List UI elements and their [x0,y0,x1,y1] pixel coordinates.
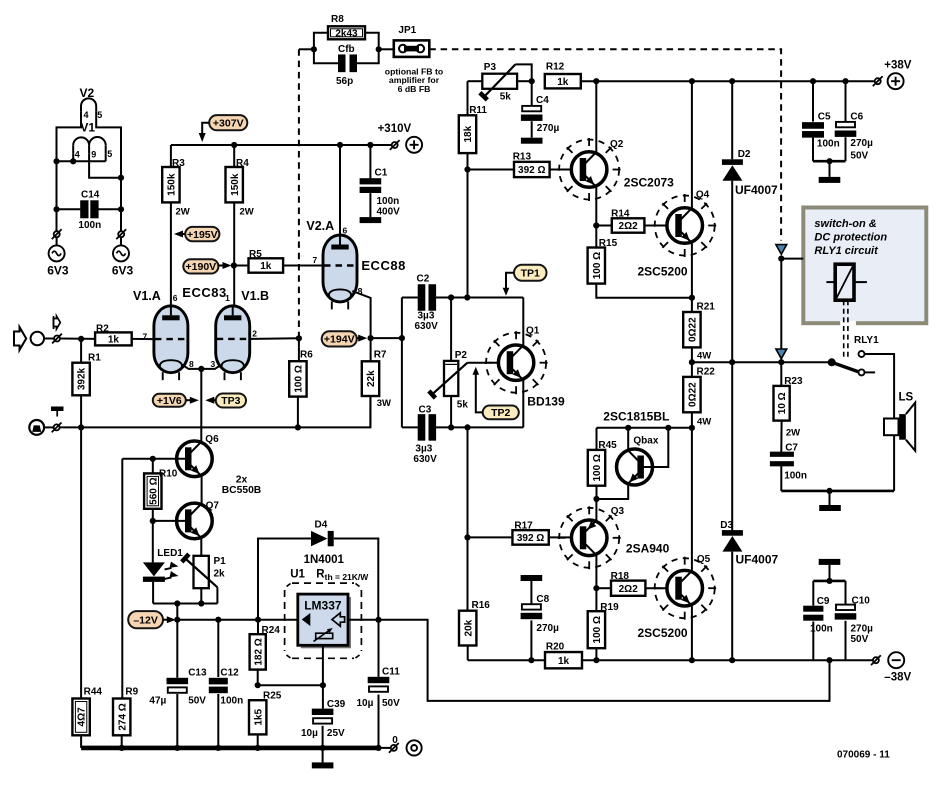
node [448,424,454,430]
label C8 value [536,623,559,634]
resistor R8 [314,26,379,49]
svg-text:ECC88: ECC88 [361,258,405,273]
node [778,256,784,262]
svg-text:UF4007: UF4007 [735,183,778,197]
ac source 6V3 left [49,245,65,261]
resistor R25 [249,700,266,748]
bubble -12V [128,611,176,628]
capacitor C1 [360,145,382,217]
svg-text:C5: C5 [818,112,831,123]
label C12 [220,668,239,679]
svg-text:R14: R14 [611,209,630,220]
label 100n [810,624,833,635]
wire [780,259,782,349]
resistor R22 [683,362,700,428]
svg-text:R44: R44 [84,687,103,698]
label C6 [850,112,863,123]
node [464,166,470,172]
svg-text:2W: 2W [176,207,190,218]
wire [371,337,402,339]
label P2 [455,350,468,361]
bubble +307V [199,115,248,142]
svg-text:C9: C9 [817,596,830,607]
terminal -38V [888,652,904,668]
resistor R9 [113,699,130,748]
label R8 [331,14,344,25]
wire: Q5 collector [691,428,693,571]
input jack circle [31,332,44,345]
wire [120,237,122,245]
wire: bootstrap vertical [401,298,403,428]
svg-text:R45: R45 [598,440,617,451]
wire: ground bus [81,746,378,751]
svg-text:BC550B: BC550B [222,485,262,496]
capacitor Cfb [314,49,379,72]
label R9 [125,687,138,698]
tube V2.A (ECC88) [323,235,357,309]
svg-text:R24: R24 [262,625,281,636]
label Rth [316,569,369,583]
label R1 [88,353,101,364]
label V1 [80,121,95,135]
svg-text:2: 2 [252,329,257,339]
label Qbax [633,436,658,447]
wire: Q2 emitter [595,187,597,226]
svg-text:R7: R7 [374,350,387,361]
wire: Q4 collector [691,81,693,208]
node [367,142,373,148]
label Q3 [611,506,625,517]
transistor Q5 [653,557,716,620]
wire [379,747,391,749]
resistor R19 [588,588,605,660]
svg-text:10µ: 10µ [301,728,318,739]
svg-text:270µ: 270µ [536,623,559,634]
label C10 value [851,624,874,645]
svg-text:Q6: Q6 [205,434,219,445]
svg-text:Q4: Q4 [696,190,710,201]
bubble +194V [322,331,368,346]
node [231,262,237,268]
svg-text:R13: R13 [513,152,532,163]
svg-text:TP1: TP1 [521,267,540,279]
wire [56,237,58,245]
label R13 [513,152,532,163]
svg-text:5: 5 [107,149,112,159]
label V1.B pin 1 [225,293,230,303]
ground [819,559,841,565]
capacitor C9 [803,581,823,660]
svg-text:+307V: +307V [213,117,244,129]
bubble +195V [174,227,219,241]
ground [521,138,543,144]
node [399,335,405,341]
resistor R23 [774,362,790,452]
svg-text:9: 9 [91,149,96,159]
wire: LED/P1 bottom [153,603,217,605]
svg-text:–12V: –12V [133,614,158,626]
label R11 [469,105,487,116]
node: R8/Cfb right node [376,46,382,52]
node [174,600,180,606]
wire: LM337 adj [322,645,324,685]
node [231,142,237,148]
label switch-on [814,218,887,257]
label R22 [697,367,716,378]
wire [596,428,598,450]
resistor R2 [95,332,154,345]
wire: LM337 out [348,620,830,701]
svg-text:R12: R12 [546,62,565,73]
wire: Q6 emitter to Q7 collector [201,476,203,504]
svg-text:6V3: 6V3 [47,264,69,278]
node [593,585,599,591]
svg-text:0Ω22: 0Ω22 [688,317,699,342]
node [689,359,695,365]
svg-text:1k: 1k [557,77,569,88]
node [448,294,454,300]
label R23 [784,376,803,387]
label 2x BC550B [222,475,262,497]
relay circuit box [803,208,926,326]
capacitor C12 [209,620,228,748]
label R2 [96,324,109,335]
svg-text:Q5: Q5 [697,554,711,565]
svg-text:100 Ω: 100 Ω [592,454,603,481]
label ECC83 [182,285,226,300]
label -38V [884,672,911,684]
svg-text:R23: R23 [784,376,803,387]
svg-text:4: 4 [75,150,80,160]
svg-text:6: 6 [173,293,178,303]
label C1 value [377,196,401,218]
svg-text:R8: R8 [331,14,344,25]
svg-text:ECC83: ECC83 [182,285,226,300]
svg-text:C13: C13 [188,668,207,679]
terminal 0 [407,740,422,755]
svg-text:V1.A: V1.A [133,289,161,303]
label 6V3 [112,264,134,278]
label R15 [599,238,618,249]
capacitor C13 [167,620,189,748]
capacitor C7 [770,452,794,491]
node [150,456,156,462]
svg-text:070069 - 11: 070069 - 11 [837,750,890,761]
heater V1 [73,137,106,154]
node [826,657,832,663]
node [118,175,124,181]
node [729,657,735,663]
connector pin [52,423,62,433]
wire [96,111,121,231]
svg-text:56p: 56p [336,76,353,87]
resistor R16 [459,611,476,661]
svg-text:V2: V2 [80,86,95,100]
label 100n [220,696,243,707]
diode D2 [722,159,743,181]
svg-text:+310V: +310V [378,123,412,135]
svg-text:C14: C14 [81,190,100,201]
wire: V1.B cathode [201,365,221,369]
label R17 [514,521,533,532]
label JP1 [398,25,416,36]
svg-text:RLY1 circuit: RLY1 circuit [814,245,879,257]
wire [829,491,831,505]
ac source 6V3 right [113,245,129,261]
svg-text:1k5: 1k5 [253,709,264,726]
label V2 pin 4 [84,110,89,120]
node [464,294,470,300]
label R3 [172,158,185,169]
ground [521,575,543,581]
label 100n [78,220,101,231]
wire: Q6 base col down [121,459,123,699]
node [150,518,156,524]
wire: Q1 collector [522,298,524,346]
svg-text:R18: R18 [611,571,630,582]
wire: output line [692,361,832,363]
label R5 [249,249,262,260]
wire [402,297,418,299]
svg-text:C8: C8 [536,594,549,605]
wire: Q3 emitter [595,499,597,520]
svg-text:BD139: BD139 [527,395,565,409]
svg-text:+194V: +194V [324,334,355,346]
transistor Q2 [558,138,621,201]
svg-text:V1: V1 [80,121,95,135]
svg-text:DC protection: DC protection [814,232,887,244]
label V1.A pin 8 [189,359,194,369]
wire [44,338,95,340]
earth terminal [29,420,44,435]
wire [299,48,314,50]
wire [57,154,106,162]
label V1.B [241,289,269,303]
tube V1.A (ECC83) [154,306,188,380]
label V2 [80,86,95,100]
label UF4007 [735,183,778,197]
label Q6 [205,434,219,445]
svg-text:C4: C4 [536,95,549,106]
svg-text:2SC2073: 2SC2073 [624,176,674,190]
node: cathode junction [198,366,204,372]
node [320,682,326,688]
svg-text:560 Ω: 560 Ω [148,477,159,504]
node [729,78,735,84]
svg-text:R11: R11 [469,105,487,116]
svg-text:4W: 4W [697,351,711,362]
node [826,158,832,164]
connector pin [116,229,126,239]
svg-text:8: 8 [189,359,194,369]
label C7 [785,443,798,454]
node [337,142,343,148]
svg-text:UF4007: UF4007 [736,553,779,567]
svg-text:6: 6 [343,226,348,236]
svg-text:2SA940: 2SA940 [626,542,670,556]
capacitor C6 [835,81,857,161]
label LS [899,392,914,404]
resistor R7 [362,338,379,427]
label +310V [378,123,412,135]
svg-text:+190V: +190V [186,261,217,273]
label optional FB [385,67,443,94]
label R10 [159,469,178,480]
wire: ground line [44,397,370,428]
svg-text:100 Ω: 100 Ω [294,365,305,392]
node [255,745,261,751]
node: R8/Cfb left node [311,46,317,52]
label P1 [214,556,227,567]
connector pin [871,655,881,665]
svg-text:C12: C12 [220,668,239,679]
label V1 pin 4 [75,150,80,160]
transistor Qbax [617,449,653,485]
label R16 [472,600,491,611]
svg-text:RLY1: RLY1 [854,335,879,346]
wire: bias line [597,427,692,429]
label Q1 [526,326,540,337]
blue triangle to relay [776,245,787,255]
svg-text:4W: 4W [697,417,711,428]
node [528,657,534,663]
svg-text:20k: 20k [463,619,474,636]
svg-text:R4: R4 [236,158,249,169]
svg-text:C7: C7 [785,443,798,454]
svg-text:400V: 400V [377,207,401,218]
svg-text:392k: 392k [77,367,88,390]
node [665,425,671,431]
label 2SC5200 [638,626,688,640]
capacitor C10 [835,581,857,660]
label D4 [315,520,328,531]
svg-text:270µ: 270µ [850,138,873,149]
svg-text:D4: D4 [315,520,328,531]
speaker LS [884,403,915,451]
svg-text:2k: 2k [214,569,226,580]
wire [176,604,178,620]
node [729,359,735,365]
node [320,745,326,751]
svg-text:C39: C39 [327,699,346,710]
label V2.A pin 6 [343,226,348,236]
resistor R5 [234,258,322,272]
svg-text:LED1: LED1 [157,548,183,559]
svg-text:+38V: +38V [884,60,912,72]
svg-text:R16: R16 [472,600,491,611]
label P3 5k [500,92,512,103]
label C13 [188,668,207,679]
wire: dashed feedback to output [429,49,781,240]
svg-text:274 Ω: 274 Ω [117,703,128,730]
wire: Q7 base [153,520,186,522]
label C1 [375,168,388,179]
tube V1.B (ECC83) [216,306,250,380]
svg-text:R19: R19 [600,602,619,613]
label V1.B pin 2 [252,329,257,339]
resistor R1 [72,339,89,428]
label R7 [374,350,387,361]
label R18 [611,571,630,582]
diode D4 [258,531,378,620]
svg-text:50V: 50V [188,696,206,707]
wire: Qbax collector [627,428,629,450]
svg-text:1k: 1k [558,656,570,667]
label ECC88 [361,258,405,273]
svg-text:150k: 150k [230,173,241,196]
label R23 2W [786,428,800,439]
node [70,158,76,164]
wire: Q1 emitter [522,380,524,427]
wire: cathode to Q6 [200,369,202,442]
label D2 [738,149,751,160]
svg-text:2Ω2: 2Ω2 [619,221,639,232]
label C5 [818,112,831,123]
svg-text:C2: C2 [417,274,430,285]
wire: Q5 emitter [691,606,693,661]
heater V2 [81,98,96,111]
ground [312,762,334,768]
connector pin [873,76,883,86]
svg-text:50V: 50V [382,698,400,709]
label Q4 [696,190,710,201]
label R24 [262,625,281,636]
svg-text:100n: 100n [220,696,243,707]
label P3 [484,62,497,73]
svg-text:10 Ω: 10 Ω [777,392,788,414]
resistor R11 [459,81,476,169]
svg-text:5: 5 [97,110,102,120]
jumper JP1 [394,40,430,57]
label C11 value [357,698,401,709]
resistor R17 [468,530,574,545]
node [53,158,59,164]
node [826,578,832,584]
input pin arrow [54,316,61,329]
ground [360,217,382,223]
resistor R13 [468,162,581,177]
wire: dashed feedback to V1.B grid [298,49,300,338]
svg-text:270µ: 270µ [537,123,560,134]
relay switch RLY1 [828,351,875,375]
node [174,617,180,623]
capacitor C2 [418,284,436,311]
label C39 value [301,728,345,739]
svg-text:2Ω2: 2Ω2 [619,584,639,595]
svg-text:100n: 100n [784,471,807,482]
svg-text:2x: 2x [236,475,248,486]
wire: Qbax base [643,428,668,467]
bubble +1V6 [153,394,199,407]
wire: relay actuator dashed [844,300,848,358]
transistor Q7 [177,503,213,539]
svg-text:R20: R20 [546,642,565,653]
label C13 value [149,696,206,707]
bubble TP3 [205,394,246,408]
svg-text:630V: 630V [415,321,439,332]
node [375,617,381,623]
transistor Q3 [558,506,621,569]
node [118,206,124,212]
label R44 [84,687,103,698]
label R21 4W [697,351,711,362]
svg-text:Q1: Q1 [526,326,540,337]
resistor R45 [588,450,605,499]
label C8 [536,594,549,605]
label LED1 [157,548,183,559]
wire [379,48,394,50]
wire [829,161,831,177]
